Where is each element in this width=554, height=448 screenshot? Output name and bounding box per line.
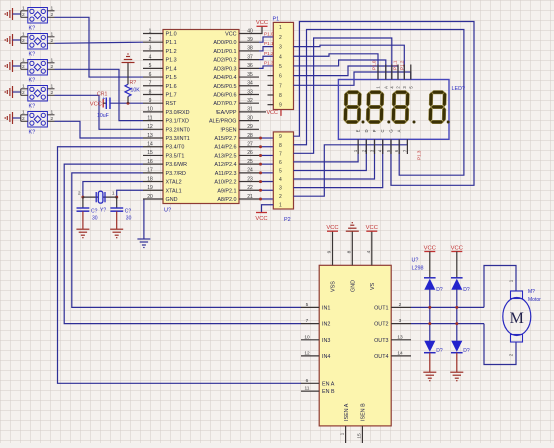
power VCC (VSS) (327, 230, 338, 232)
wire K2 to P1.1 (55, 42, 144, 43)
pin 2 P1.1 (143, 41, 163, 43)
svg-text:P3.6/WR: P3.6/WR (166, 162, 188, 168)
svg-text:5: 5 (149, 63, 152, 69)
pushbutton K4 (28, 86, 48, 102)
svg-text:U?: U? (412, 258, 419, 264)
svg-text:37: 37 (247, 54, 253, 60)
pin 5 P1.4 (143, 67, 163, 69)
svg-text:4: 4 (149, 54, 152, 60)
svg-text:OUT3: OUT3 (374, 338, 388, 344)
svg-text:2: 2 (399, 302, 402, 308)
svg-text:P3.7/RD: P3.7/RD (166, 171, 186, 177)
wire ground to K1 (13, 13, 21, 15)
svg-text:2: 2 (22, 64, 25, 70)
pin 16 P3.6/WR (143, 163, 163, 165)
svg-text:2: 2 (279, 194, 282, 200)
svg-text:6: 6 (306, 378, 309, 384)
wire diode column (429, 289, 431, 341)
wire pin38 to P1 / net P1.1 (259, 47, 273, 51)
wire C? right to ground (116, 211, 118, 228)
svg-text:15: 15 (356, 433, 362, 439)
svg-text:36: 36 (247, 63, 253, 69)
wire OUT1 to motor (411, 306, 484, 308)
pin stub (display top) (403, 65, 405, 80)
pin 29 !PSEN (239, 128, 259, 130)
wire P2-4 to LED bottom pin 3 (294, 139, 375, 179)
svg-text:GND: GND (166, 197, 178, 203)
pin 34 AD5/P0.5 (239, 85, 259, 87)
svg-text:VCC: VCC (256, 20, 268, 26)
power VCC (P2 bottom) (256, 212, 267, 214)
svg-text:9: 9 (279, 103, 282, 109)
pin 7 IN2 (301, 323, 319, 325)
svg-text:XTAL1: XTAL1 (166, 188, 182, 194)
power VCC (VS) (366, 230, 377, 232)
pin 12 IN4 (301, 355, 319, 357)
svg-text:30: 30 (92, 216, 98, 222)
svg-text:CR1: CR1 (97, 92, 107, 98)
svg-text:A11/P2.3: A11/P2.3 (215, 171, 237, 177)
node P2 junction 8 (259, 197, 262, 200)
svg-text:1: 1 (22, 57, 25, 63)
wire pin25 to P2 (259, 163, 273, 165)
svg-text:25: 25 (247, 159, 253, 165)
svg-text:34: 34 (247, 81, 253, 87)
svg-text:P1.2: P1.2 (264, 51, 274, 56)
digit 2 (7-segment) (366, 91, 384, 124)
svg-text:2: 2 (51, 38, 54, 44)
svg-text:P1.3: P1.3 (166, 58, 177, 64)
svg-text:23: 23 (247, 176, 253, 182)
svg-text:A15/P2.7: A15/P2.7 (214, 136, 236, 142)
capacitor C? (left) 30 (82, 197, 84, 208)
wire pin23 to P2 (259, 181, 273, 183)
svg-text:P1.7: P1.7 (166, 92, 177, 98)
wire pin27 to P2 (259, 146, 273, 148)
svg-text:2: 2 (149, 37, 152, 43)
svg-text:3: 3 (279, 186, 282, 192)
svg-text:4: 4 (279, 54, 282, 60)
svg-text:28: 28 (247, 133, 253, 139)
svg-text:VCC: VCC (267, 110, 278, 116)
svg-text:P3.4/T0: P3.4/T0 (166, 145, 185, 151)
power VCC (pin 40) (259, 27, 262, 34)
svg-text:C: C (380, 129, 385, 132)
pin 14 P3.4/T0 (143, 146, 163, 148)
svg-text:K?: K? (29, 130, 36, 136)
svg-text:40: 40 (247, 28, 253, 34)
wire VCC to diode (429, 252, 431, 278)
svg-text:8: 8 (279, 93, 282, 99)
svg-text:R?: R? (130, 80, 137, 86)
svg-text:9: 9 (279, 134, 282, 140)
ground (button K2) (5, 34, 12, 46)
wire R? to ground (127, 63, 129, 84)
wire R? to RST node (127, 97, 129, 104)
svg-text:1: 1 (509, 279, 515, 282)
pin stub (display bottom) (365, 139, 367, 154)
svg-text:P3.5/T1: P3.5/T1 (166, 153, 185, 159)
svg-text:8: 8 (346, 250, 352, 253)
svg-text:33: 33 (247, 89, 253, 95)
pin 25 A12/P2.4 (239, 163, 259, 165)
pin 17 P3.7/RD (143, 172, 163, 174)
pin 4 VS (371, 232, 373, 266)
svg-text:11: 11 (305, 386, 310, 392)
pin 23 A10/P2.2 (239, 181, 259, 183)
connector P1 (273, 22, 293, 109)
pin stub (display bottom) (382, 139, 384, 154)
svg-text:10uF: 10uF (97, 113, 109, 119)
svg-text:1: 1 (279, 25, 282, 31)
svg-text:9: 9 (149, 98, 152, 104)
wire crystal horizontal (83, 196, 117, 198)
diode D? (upper) (424, 277, 436, 279)
svg-text:14: 14 (147, 142, 153, 148)
ground (button K4) (5, 86, 12, 98)
pin 8 P1.7 (143, 93, 163, 95)
svg-text:P3.2/INT0: P3.2/INT0 (166, 127, 190, 133)
wire pin22 to P2 (259, 189, 273, 191)
svg-text:12: 12 (304, 350, 310, 356)
pin 19 XTAL1 (143, 189, 163, 191)
pin 35 AD4/P0.4 (239, 76, 259, 78)
svg-text:8: 8 (149, 89, 152, 95)
wire P2-7 to LED top pin 3 (294, 38, 392, 153)
svg-text:27: 27 (247, 142, 253, 148)
wire P2 pin1 to VCC (262, 205, 274, 213)
wire CR1 to RST node (110, 102, 143, 104)
pin stub (display bottom) (398, 139, 400, 154)
svg-text:7: 7 (149, 81, 152, 87)
wire ground to K4 (13, 91, 21, 93)
pin 7 P1.6 (143, 85, 163, 87)
pin 1 ISEN A (345, 426, 347, 443)
pin 37 AD2/P0.2 (239, 59, 259, 61)
wire P2-3 to LED bottom pin 4 (294, 139, 383, 187)
wire P2-6 to LED bottom pin 1 (294, 139, 359, 162)
wire pin21 to P2 (259, 198, 273, 200)
svg-text:IN1: IN1 (322, 305, 330, 311)
svg-text:!PSEN: !PSEN (220, 127, 236, 133)
svg-text:9: 9 (327, 250, 333, 253)
pin stub (display bottom) (390, 139, 392, 154)
pin stub P1 row 6 (268, 75, 274, 77)
svg-text:RST: RST (166, 101, 177, 107)
svg-text:14: 14 (397, 350, 403, 356)
svg-text:VSS: VSS (331, 281, 337, 292)
pin 27 A14/P2.6 (239, 146, 259, 148)
svg-text:D?: D? (463, 348, 470, 354)
svg-text:16: 16 (147, 159, 153, 165)
pin 6 P1.5 (143, 76, 163, 78)
pin 9 VSS (332, 232, 334, 266)
svg-text:P1.2: P1.2 (166, 49, 177, 55)
svg-text:6: 6 (279, 160, 282, 166)
svg-text:29: 29 (247, 124, 253, 130)
svg-text:ISEN B: ISEN B (361, 403, 367, 421)
svg-text:ISEN A: ISEN A (344, 403, 350, 421)
pin 13 OUT3 (391, 339, 411, 341)
svg-text:4: 4 (366, 250, 372, 253)
resistor R? 10K (125, 84, 131, 96)
pin stub (display bottom) (406, 139, 408, 154)
pin 22 A9/P2.1 (239, 189, 259, 191)
svg-text:D?: D? (463, 287, 470, 293)
svg-text:P3.0/RXD: P3.0/RXD (166, 110, 190, 116)
svg-text:P1.0: P1.0 (372, 60, 377, 70)
svg-text:VCC: VCC (366, 225, 378, 231)
capacitor C? (right) 30 (116, 197, 118, 208)
pin 32 AD7/P0.7 (239, 102, 259, 104)
wire P1-7 to LED top pin 6 (294, 72, 411, 85)
svg-text:Motor: Motor (528, 297, 541, 303)
power VCC (diode) (424, 251, 435, 253)
pin 28 A15/P2.7 (239, 137, 259, 139)
svg-text:1: 1 (51, 109, 54, 115)
svg-text:3: 3 (399, 318, 402, 324)
pin 26 A13/P2.5 (239, 154, 259, 156)
pin 40 VCC (239, 33, 259, 35)
ground (C? left) (76, 229, 89, 238)
diode D? (lower) (451, 352, 463, 354)
svg-text:1: 1 (51, 57, 54, 63)
wire P2-8 to LED pin (loop inner) (294, 30, 464, 176)
svg-text:P1.1: P1.1 (166, 40, 177, 46)
diode D? (upper) (451, 277, 463, 279)
svg-text:6: 6 (279, 74, 282, 80)
wire ground to K5 (13, 117, 21, 119)
wire P1-3 to LED top pin 5 (294, 45, 405, 79)
wire VCC to CR1 (103, 102, 106, 104)
svg-text:VCC: VCC (255, 216, 267, 222)
svg-text:A14/P2.6: A14/P2.6 (214, 145, 236, 151)
svg-text:3: 3 (149, 46, 152, 52)
wire diode column (456, 289, 458, 341)
node crystal left (81, 196, 84, 199)
node diode OUT1 (455, 306, 458, 309)
svg-text:P1.6: P1.6 (166, 84, 177, 90)
wire P1-5 to LED top pin 2 (294, 60, 386, 80)
svg-text:1: 1 (340, 432, 346, 435)
svg-text:P3.3/INT1: P3.3/INT1 (166, 136, 190, 142)
pins K3 (21, 63, 55, 70)
svg-text:LED?: LED? (452, 86, 466, 92)
svg-text:P: P (372, 129, 377, 132)
svg-text:1: 1 (51, 5, 54, 11)
driver U? L298 (319, 265, 391, 426)
svg-text:15: 15 (147, 150, 153, 156)
motor M? (503, 298, 531, 336)
svg-text:3: 3 (279, 45, 282, 51)
pin 5 IN1 (301, 306, 319, 308)
svg-text:7: 7 (279, 151, 282, 157)
svg-text:1: 1 (51, 31, 54, 37)
ground (MCU GND) (137, 239, 150, 248)
pin 4 P1.3 (143, 59, 163, 61)
svg-text:D?: D? (436, 348, 443, 354)
pin 36 AD3/P0.3 (239, 67, 259, 69)
pin 18 XTAL2 (143, 181, 163, 183)
svg-text:VCC: VCC (225, 32, 236, 38)
ground (button K1) (5, 8, 12, 20)
ground (diode) (423, 372, 436, 381)
pin 20 GND (143, 198, 163, 200)
wire pin37 to P1 / net P1.2 (259, 56, 273, 59)
node diode OUT2 (428, 322, 431, 325)
svg-text:39: 39 (247, 37, 253, 43)
display LED? 4-digit 7-segment (338, 80, 449, 140)
svg-text:P1.3: P1.3 (264, 60, 274, 65)
wire ground to K2 (13, 39, 21, 41)
pin 31 !EA/VPP (239, 111, 259, 113)
pins K1 (21, 11, 55, 17)
svg-text:M?: M? (528, 289, 535, 295)
node diode OUT2 (455, 322, 458, 325)
wire pin36 to P1 / net P1.3 (259, 66, 273, 68)
svg-text:1: 1 (22, 5, 25, 11)
svg-text:2: 2 (22, 90, 25, 96)
svg-text:EN B: EN B (322, 389, 335, 395)
pins K5 (21, 115, 55, 122)
node P2 junction 2 (259, 145, 262, 148)
svg-text:AD7/P0.7: AD7/P0.7 (213, 101, 236, 107)
svg-text:A12/P2.4: A12/P2.4 (214, 162, 236, 168)
pin stub (display top) (377, 65, 379, 80)
svg-text:P1.0: P1.0 (166, 32, 177, 38)
wire K3 to P3.1 (55, 69, 144, 120)
wire pin28 to P2 (259, 137, 273, 139)
svg-text:10: 10 (304, 334, 310, 340)
wire diode to ground (429, 353, 431, 372)
svg-text:A: A (383, 86, 388, 89)
svg-text:8: 8 (279, 143, 282, 149)
wire P1-4 to LED top pin 1 (294, 54, 379, 80)
svg-text:2: 2 (22, 12, 25, 18)
wire P1-6 to LED top pin 4 (294, 66, 399, 80)
svg-text:P1.1: P1.1 (393, 60, 398, 70)
power VCC (pin 31 EA) (259, 111, 266, 113)
svg-text:AD0/P0.0: AD0/P0.0 (213, 40, 236, 46)
svg-text:24: 24 (247, 168, 253, 174)
svg-text:A10/P2.2: A10/P2.2 (214, 180, 236, 186)
svg-text:1: 1 (112, 191, 115, 197)
pin 2 OUT1 (391, 306, 411, 308)
node P2 junction 3 (259, 154, 262, 157)
pin 11 P3.1/TXD (143, 120, 163, 122)
svg-text:IN3: IN3 (322, 338, 330, 344)
pin stub (display bottom) (357, 139, 359, 154)
digit 3 (7-segment) (391, 91, 409, 124)
svg-text:ALE/PROG: ALE/PROG (209, 119, 237, 125)
pin stub (display top) (385, 65, 387, 80)
wire OUT2 to motor (411, 323, 484, 325)
crystal Y? (96, 191, 105, 203)
svg-text:4: 4 (279, 177, 282, 183)
pin stub (display top) (391, 65, 393, 80)
pin 6 EN A (301, 382, 319, 384)
wire K5 to P3.3 (55, 121, 144, 138)
svg-text:6: 6 (149, 72, 152, 78)
pin 15 P3.5/T1 (143, 154, 163, 156)
pushbutton K5 (28, 112, 48, 128)
pin stub (display top) (410, 65, 412, 80)
svg-text:U?: U? (164, 208, 171, 214)
svg-text:11: 11 (147, 115, 152, 121)
node crystal right (115, 196, 118, 199)
svg-text:VCC: VCC (90, 102, 102, 108)
ground (reset pull) (122, 54, 135, 63)
svg-text:32: 32 (247, 98, 253, 104)
pin 3 P1.2 (143, 50, 163, 52)
pushbutton K2 (28, 34, 48, 50)
svg-text:XTAL2: XTAL2 (166, 180, 182, 186)
svg-text:E: E (356, 129, 361, 132)
pin 30 ALE/PROG (239, 120, 259, 122)
svg-text:P1.3: P1.3 (417, 150, 422, 160)
svg-text:2: 2 (22, 38, 25, 44)
svg-text:AD6/P0.6: AD6/P0.6 (213, 92, 236, 98)
power VCC (diode) (451, 251, 462, 253)
wire P3.7 to IN1 (72, 173, 301, 308)
svg-text:31: 31 (247, 107, 253, 113)
svg-text:C?: C? (91, 209, 98, 215)
svg-text:2: 2 (51, 116, 54, 122)
svg-text:EN A: EN A (322, 381, 335, 387)
wire P2-9 to LED pin (loop outer) (294, 22, 475, 186)
svg-text:GND: GND (350, 280, 356, 292)
node P2 junction 5 (259, 171, 262, 174)
svg-text:OUT2: OUT2 (374, 322, 388, 328)
svg-text:26: 26 (247, 150, 253, 156)
svg-text:!EA/VPP: !EA/VPP (216, 110, 237, 116)
pin 14 OUT4 (391, 355, 411, 357)
svg-text:38: 38 (247, 46, 253, 52)
pin 38 AD1/P0.1 (239, 50, 259, 52)
svg-text:1: 1 (279, 203, 282, 209)
svg-text:K?: K? (29, 52, 36, 58)
svg-text:A9/P2.1: A9/P2.1 (217, 188, 236, 194)
svg-text:VCC: VCC (451, 245, 463, 251)
svg-text:M: M (510, 310, 524, 327)
svg-text:OUT4: OUT4 (374, 354, 388, 360)
svg-text:13: 13 (147, 133, 153, 139)
svg-text:30: 30 (247, 115, 253, 121)
pin 9 RST (143, 102, 163, 104)
wire C? left to ground (82, 211, 84, 228)
svg-text:K?: K? (29, 104, 36, 110)
svg-text:D: D (364, 129, 369, 132)
svg-text:P1.5: P1.5 (166, 75, 177, 81)
svg-text:VCC: VCC (424, 245, 436, 251)
svg-text:P1.0: P1.0 (264, 31, 274, 36)
svg-text:1: 1 (51, 83, 54, 89)
svg-text:P3.1/TXD: P3.1/TXD (166, 119, 189, 125)
pin 33 AD6/P0.6 (239, 93, 259, 95)
wire GND pin to ground (143, 199, 145, 239)
svg-text:1: 1 (22, 83, 25, 89)
diode D? (lower) (424, 352, 436, 354)
svg-text:30: 30 (126, 216, 132, 222)
svg-text:13: 13 (397, 334, 403, 340)
svg-text:2: 2 (279, 35, 282, 41)
svg-text:18: 18 (147, 176, 153, 182)
pin 15 ISEN B (361, 426, 363, 443)
node P2 junction 4 (259, 163, 262, 166)
pin stub (display bottom) (374, 139, 376, 154)
svg-text:10: 10 (147, 107, 153, 113)
svg-text:P1.1: P1.1 (264, 41, 274, 46)
